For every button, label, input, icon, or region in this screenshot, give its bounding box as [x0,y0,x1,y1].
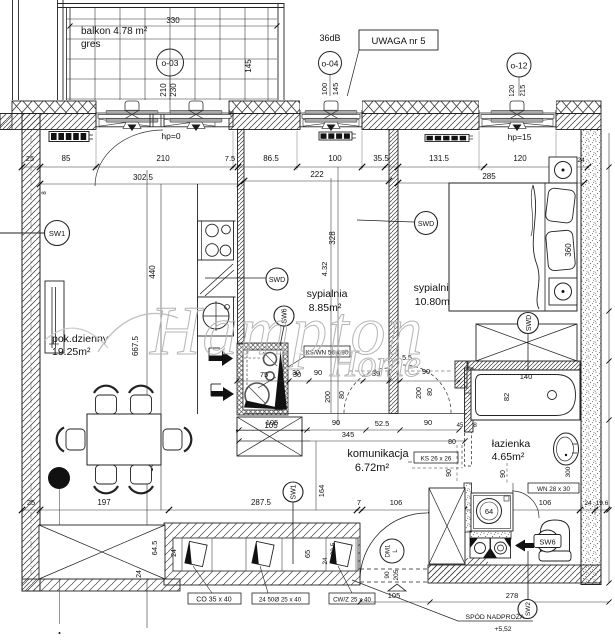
svg-text:39.5: 39.5 [330,542,337,555]
svg-text:100: 100 [320,83,329,96]
vent label boxes [188,593,241,604]
chair left [57,428,85,452]
balcony door arc [95,130,163,186]
partition wall bedroom1/bedroom2 [389,130,398,414]
svg-text:19.25m²: 19.25m² [52,346,91,358]
svg-text:25: 25 [27,498,35,507]
top wall lower band (diag hatch) [0,114,96,130]
svg-text:80: 80 [427,388,434,396]
SW1 circle living room [0,232,45,234]
extension lines to dim row [95,131,97,170]
SWD circle bedroom1 [357,220,414,222]
svg-text:440: 440 [148,265,157,279]
toilet [541,520,570,552]
vent 2 [252,541,274,566]
svg-text:145: 145 [244,59,253,73]
svg-text:302.5: 302.5 [133,173,154,182]
floor lamp rect [45,281,64,353]
entry door DM1 arc [360,513,427,580]
bottom dim 105/278 [360,601,609,603]
svg-text:86.5: 86.5 [263,154,279,163]
bedroom1 door arc dashed [344,368,389,413]
svg-text:SPÓD NADPROŻA: SPÓD NADPROŻA [466,612,525,621]
svg-text:łazienka: łazienka [492,438,531,450]
black arrow left [515,540,525,552]
right edge dims 24 19.6 [594,505,596,515]
svg-text:o-12: o-12 [510,61,527,71]
svg-text:140: 140 [520,372,533,381]
svg-text:o-04: o-04 [321,59,338,69]
svg-text:25: 25 [26,154,34,163]
svg-text:120: 120 [507,85,516,98]
svg-text:285: 285 [482,172,496,181]
svg-text:24: 24 [577,157,585,164]
svg-text:200: 200 [325,391,332,403]
vent CO [185,541,207,566]
svg-text:345: 345 [342,430,355,439]
bathroom left wall stub [455,361,467,388]
balcony dim 330 [70,25,277,27]
SW2 circle [527,551,529,600]
bottom wall right band [428,565,601,583]
watermark Hampton [45,293,425,385]
svg-text:SW6: SW6 [539,538,555,547]
chairs top [94,386,118,414]
nightstand top [549,157,577,183]
svg-text:90: 90 [446,469,453,477]
radiator living room [49,132,89,142]
svg-text:52.5: 52.5 [375,419,390,428]
partition wall living/bedroom1 [238,130,245,345]
kitchen counter [197,184,199,414]
svg-text:65: 65 [303,550,312,558]
svg-text:SWD: SWD [269,277,285,284]
svg-text:7: 7 [357,498,361,507]
bath door leaf dashed [465,432,472,466]
dim 222 [244,180,389,182]
balcony door window [96,112,233,114]
svg-text:8: 8 [473,422,477,429]
svg-text:6.72m²: 6.72m² [355,462,390,474]
closet wall below [429,564,465,582]
left wall [22,114,40,592]
svg-text:SW2: SW2 [525,602,532,616]
wardrobe X living room [39,525,165,579]
svg-text:105: 105 [266,418,279,427]
chairs bottom [94,465,118,493]
right wall [581,130,601,585]
164 dim [315,441,317,510]
dim 345 [239,440,465,442]
svg-text:200: 200 [416,387,423,399]
svg-text:328: 328 [328,231,337,245]
washing machine [471,493,513,531]
svg-text:24: 24 [584,500,592,507]
top dim line [22,166,588,168]
dim 302.5 [40,183,240,185]
svg-text:hp=15: hp=15 [508,132,532,142]
svg-text:24: 24 [322,557,329,565]
svg-text:30: 30 [292,370,300,377]
svg-text:UWAGA nr 5: UWAGA nr 5 [371,36,425,47]
svg-text:4.32: 4.32 [320,262,329,277]
SW6 circle kitchen [274,306,294,326]
svg-text:210: 210 [156,154,170,163]
svg-text:45: 45 [457,423,464,429]
svg-text:gres: gres [81,39,100,50]
radiator bedroom 2 [425,135,469,142]
svg-text:82: 82 [502,393,511,401]
SWD circle kitchen [205,277,266,279]
UWAGA nr 5 box [359,30,438,50]
balcony rails [12,0,14,100]
SW1 circle komunikacja [283,482,303,502]
svg-text:85: 85 [62,154,71,163]
svg-text:DM1: DM1 [386,544,392,557]
svg-text:145: 145 [331,83,340,96]
svg-text:205: 205 [393,569,400,580]
window circle o-03 [157,49,184,76]
svg-text:64: 64 [485,507,493,516]
svg-text:SWD: SWD [418,221,434,228]
bed [449,183,577,311]
svg-text:7.5: 7.5 [225,154,235,163]
svg-text:120: 120 [513,154,527,163]
svg-text:106: 106 [539,498,552,507]
svg-text:36dB: 36dB [319,33,340,43]
svg-text:667.5: 667.5 [131,335,140,356]
svg-text:+5,52: +5,52 [494,626,511,633]
svg-text:90: 90 [500,470,507,478]
bottom dim line y510 [22,509,607,511]
bathroom left wall [465,368,474,432]
entry lintel dashed [360,568,428,570]
sink unit dashed [246,351,248,391]
vertical dim lines living room [146,170,148,628]
svg-text:210: 210 [159,83,168,97]
svg-text:4.65m²: 4.65m² [492,451,525,463]
svg-text:80: 80 [339,391,346,399]
meters [470,538,490,558]
svg-text:164: 164 [317,485,326,498]
bathroom shelf X [476,324,577,361]
svg-text:35.5: 35.5 [373,154,389,163]
svg-text:hp=0: hp=0 [161,131,180,141]
vent leader lines [193,566,212,593]
svg-text:131.5: 131.5 [429,154,450,163]
dashed guides near bath door [456,445,458,483]
sink unit circles [264,353,277,366]
SWD circle bathroom [518,313,539,334]
svg-text:SW1: SW1 [49,229,65,238]
svg-text:287.5: 287.5 [251,498,272,507]
balcony tile grid [94,8,96,100]
svg-text:90: 90 [424,418,432,427]
svg-text:pok.dzienny: pok.dzienny [52,333,109,345]
bathtub [471,370,580,420]
wall under washer horizontal [470,531,511,539]
bottom wall left band [22,579,180,591]
washbasin [554,433,579,465]
nightstand bottom [549,278,577,305]
kitchen X-rect below [237,417,302,456]
svg-text:CW/Z 25 x 40: CW/Z 25 x 40 [333,597,371,604]
svg-text:215: 215 [518,85,527,98]
bathroom door arc [512,491,539,518]
dining table [87,414,161,465]
svg-text:278: 278 [506,591,519,600]
svg-text:80: 80 [448,439,456,446]
blanket curve [533,185,539,309]
svg-text:24: 24 [136,570,143,578]
right outside dim line [608,133,610,583]
svg-text:Home: Home [329,343,421,385]
svg-text:360: 360 [564,243,573,257]
pillow 1 [545,188,576,224]
room boundary line [244,413,467,415]
svg-text:WN 28 x 30: WN 28 x 30 [537,486,570,493]
closet X komunikacja [429,488,465,564]
svg-text:90: 90 [384,571,391,579]
kitchen arrows [222,351,233,366]
svg-text:CO 35 x 40: CO 35 x 40 [196,597,232,604]
svg-text:19.6: 19.6 [596,500,609,507]
svg-text:24: 24 [171,549,178,557]
svg-text:75: 75 [260,370,268,379]
svg-text:SW1: SW1 [291,484,298,499]
dishwasher diag [200,264,233,294]
window circle o-12 [507,53,531,77]
svg-text:330: 330 [166,16,180,25]
kitchen sink circle [198,297,234,336]
svg-text:106: 106 [390,498,403,507]
bottom wall mid block [164,523,360,585]
svg-text:o-03: o-03 [161,58,178,68]
lamp dot [48,467,70,489]
vent 3 [330,541,352,566]
window o-04 [300,96,362,112]
dim row under doors [239,429,459,431]
entry step triangle [388,584,406,591]
pillow 2 [545,230,575,271]
KS label box [414,452,458,463]
svg-text:64.5: 64.5 [150,541,159,556]
top wall upper band (cross hatch) [12,101,96,114]
svg-text:230: 230 [169,83,178,97]
svg-text:SWD: SWD [526,315,533,331]
bedroom2 door arc dashed [403,365,451,413]
svg-text:90: 90 [332,418,340,427]
kitchen sink unit KS/WN [237,343,288,415]
stove [198,221,234,260]
SW6 box toilet [537,530,559,552]
dim 30 between [237,380,459,382]
WN label box [528,483,579,493]
svg-text:105: 105 [388,591,401,600]
window o-12 [479,96,556,112]
wall sink/washer vertical [464,483,472,532]
svg-text:300: 300 [565,466,572,477]
svg-text:komunikacja: komunikacja [347,448,409,460]
bathroom top wall [468,361,580,370]
vent channel cutout [173,538,358,571]
radiator under o-04 [319,132,352,140]
dim 285 [398,182,584,184]
svg-text:balkon 4.78 m²: balkon 4.78 m² [81,26,148,37]
KS/WN label box [304,346,350,357]
spod nadproza leader [352,580,533,621]
svg-text:24 50Ø 25 x 40: 24 50Ø 25 x 40 [259,597,302,604]
sink unit black wedge [275,351,288,410]
chair right [163,428,191,452]
svg-text:197: 197 [97,498,111,507]
svg-text:222: 222 [310,170,324,179]
svg-text:100: 100 [328,154,342,163]
svg-text:KS 26 x 26: KS 26 x 26 [421,456,452,463]
bedroom1 vertical dims [330,178,332,413]
